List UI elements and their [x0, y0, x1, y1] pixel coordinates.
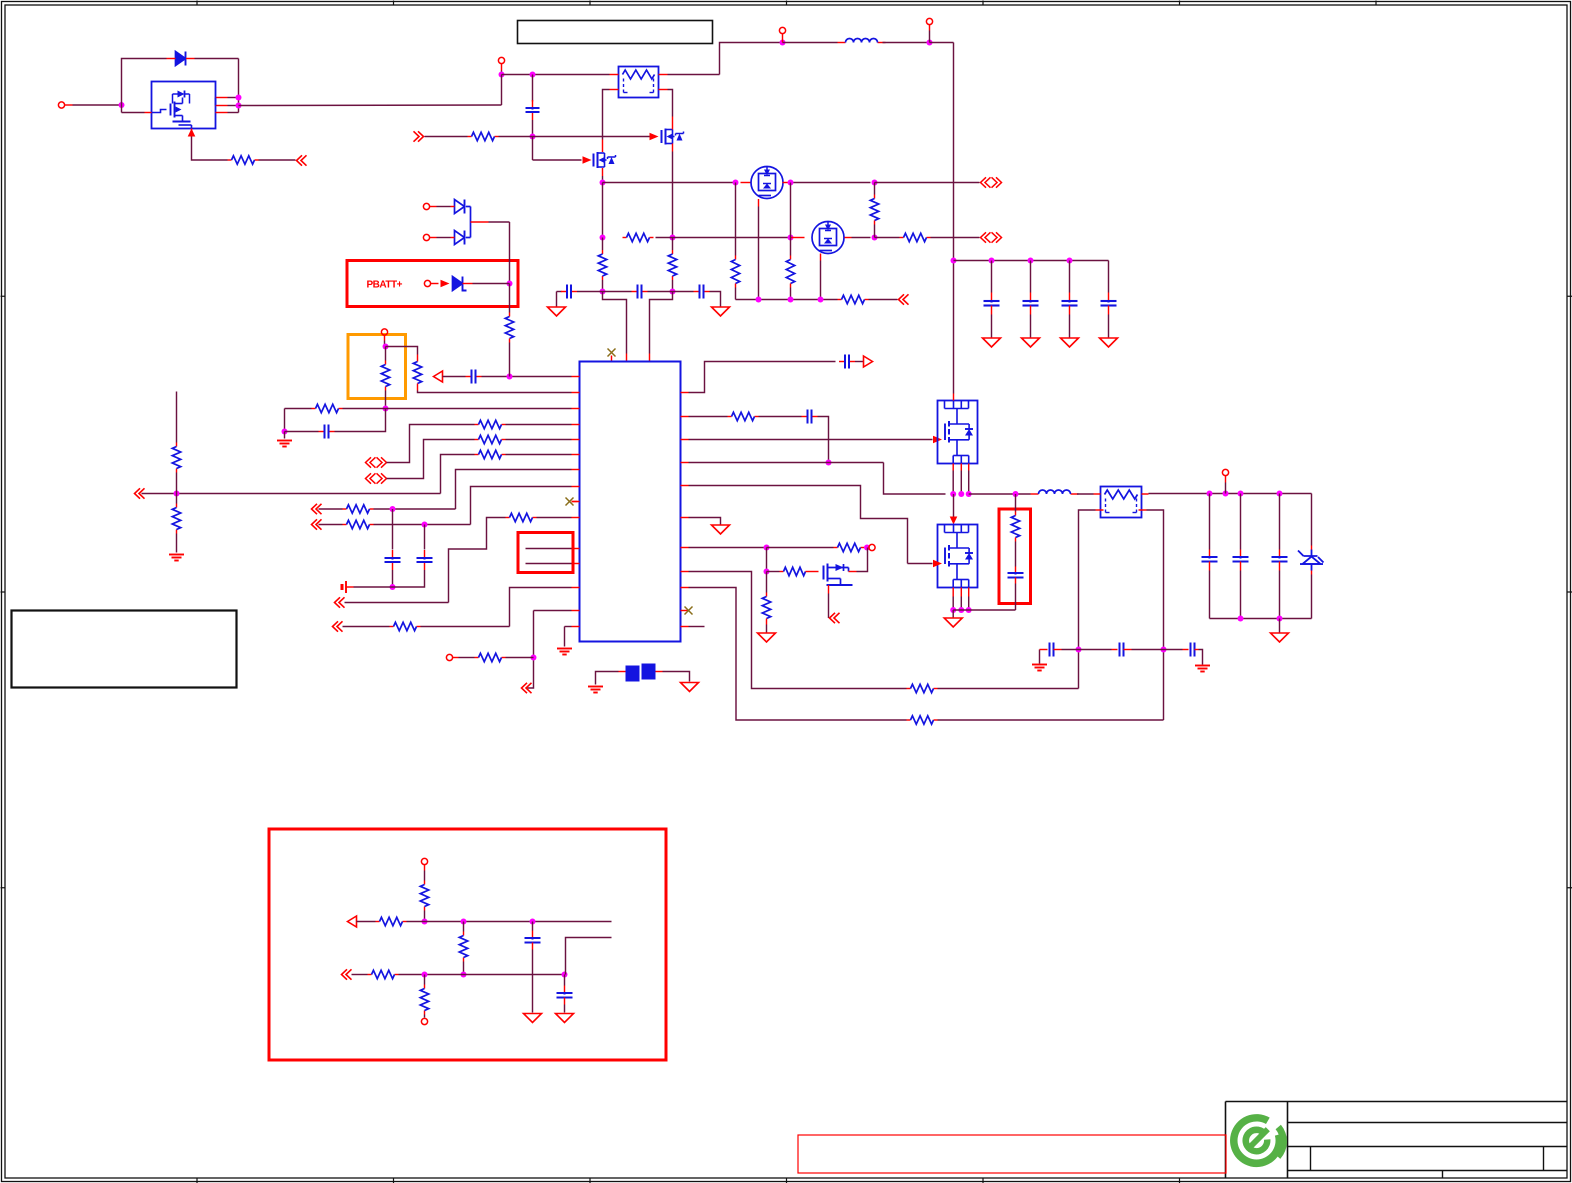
wire Q4 source down	[758, 207, 760, 300]
resistor R24	[728, 416, 732, 418]
junction bus237 R6	[872, 235, 878, 241]
resistor R17	[176, 443, 178, 447]
junction ognd b	[1277, 616, 1283, 622]
capacitor C27 div	[532, 922, 534, 931]
capacitor C14 bank	[1108, 261, 1110, 293]
resistor R15	[475, 439, 479, 441]
port pair pin439	[366, 473, 376, 483]
wire D4 to node	[473, 283, 510, 285]
wire crow d	[1164, 649, 1183, 651]
junction bus182 R6top	[872, 180, 878, 186]
no-connect pin501	[572, 501, 578, 503]
wire diode loop	[122, 59, 167, 106]
wire Q3 down to R row	[602, 183, 604, 238]
capacitor C8 net	[424, 525, 426, 550]
wire Y1 right	[663, 672, 690, 682]
wire pin547 a	[689, 547, 767, 549]
port ISENSE left	[297, 155, 307, 165]
resistor R27	[762, 597, 770, 619]
wire VIN to fuse	[502, 74, 610, 76]
wire R8 to bus299	[735, 288, 737, 300]
wire pin392 up	[689, 362, 836, 393]
wire bus237 c	[736, 237, 791, 239]
ground pin517	[712, 525, 730, 534]
port orange box	[381, 329, 387, 335]
junction C-branch	[530, 72, 536, 78]
wire bus237 f	[931, 237, 980, 239]
wire IC top feed 2	[650, 292, 673, 354]
resistor R2	[468, 136, 472, 138]
wire caps row c	[603, 291, 632, 293]
wire Q1 pin3 to loop	[228, 112, 239, 114]
port long net	[135, 488, 145, 498]
port P2 VIN	[498, 57, 504, 63]
capacitor C9	[839, 361, 845, 363]
wire R30 to corner	[938, 719, 1164, 721]
wire rail to Q6	[953, 261, 955, 394]
wire R13 to junction	[343, 408, 386, 410]
zener D4 PBATT	[453, 277, 463, 291]
resistor R3	[602, 250, 604, 254]
snubber branch	[1015, 494, 1017, 512]
black annotation box (top)	[518, 21, 713, 44]
wire R27 gnd	[766, 625, 768, 633]
diode D3 cathode join	[466, 237, 471, 239]
charger IC U1	[580, 362, 681, 642]
wire P2 down	[501, 71, 503, 75]
wire Q3 source down	[602, 176, 604, 183]
junction bank b	[1028, 258, 1034, 264]
capacitor C26	[1183, 649, 1189, 651]
wire div2 a	[352, 974, 368, 976]
resistor R18	[176, 504, 178, 508]
half-bridge FET Q6	[938, 401, 978, 464]
wire R35 down	[424, 1015, 426, 1018]
wire R31 down	[424, 911, 426, 922]
resistor R22	[390, 626, 394, 628]
capacitor C25	[1112, 649, 1118, 651]
bus299	[736, 299, 838, 301]
wire loop right leg	[238, 59, 240, 113]
junction rail A	[780, 40, 786, 46]
Q8 source down	[828, 585, 830, 594]
resistor R35	[424, 985, 426, 989]
ground power	[944, 618, 962, 627]
wire pin439	[387, 440, 475, 479]
wire R1 to port	[259, 159, 296, 161]
port div out	[348, 916, 357, 927]
wire long to pin454	[441, 455, 475, 494]
resistor R26	[834, 547, 838, 549]
ground C28	[556, 1014, 574, 1023]
wire orange node to pin392 b	[418, 391, 572, 393]
wire crow c	[1132, 649, 1164, 651]
title block row lines	[1288, 1122, 1568, 1124]
wire pin408 left	[285, 408, 312, 410]
ground crow right	[1195, 665, 1210, 667]
resistor R10	[838, 299, 842, 301]
port P3	[779, 27, 785, 33]
wire bus237 a	[656, 237, 673, 239]
mosfet Q8 small	[823, 566, 825, 580]
wire caps row e	[673, 291, 694, 293]
junction R row mid	[670, 235, 676, 241]
ground pin626	[557, 648, 572, 650]
wire RC branch down	[284, 409, 286, 432]
wire junction to Q2 gate	[533, 136, 650, 138]
wire RC gnd stub	[284, 432, 286, 439]
wire pin517 a	[345, 602, 449, 604]
junction div2	[461, 919, 467, 925]
wire rail to corner	[930, 42, 954, 44]
wire orange node down	[385, 347, 387, 361]
ground Y1 left	[588, 686, 603, 688]
wire divider top	[176, 392, 178, 443]
ground right of caps	[712, 307, 730, 316]
wire pin517 gnd	[689, 518, 721, 525]
wire div top	[424, 871, 426, 881]
capacitor C6	[319, 431, 325, 433]
wire R16 to IC	[506, 454, 572, 456]
junction boot node	[826, 460, 832, 466]
port CS out pair	[981, 232, 991, 242]
port VOUT	[1222, 469, 1228, 475]
wire pin408 right	[386, 408, 572, 410]
wire to D3	[437, 237, 451, 239]
port div top	[421, 858, 427, 864]
port VGATE pair	[981, 177, 991, 187]
ground Y1 right	[681, 683, 699, 692]
arrow into Q2 gate	[650, 133, 659, 141]
resistor R4	[672, 250, 674, 254]
wire div1 a	[357, 921, 376, 923]
sense shunt RS2	[1101, 487, 1142, 518]
title block cell dividers	[1310, 1147, 1312, 1171]
wire bt to C7	[354, 586, 393, 588]
junction vout a	[1207, 491, 1213, 497]
arrow gate1	[933, 436, 942, 444]
resistor R19	[343, 508, 347, 510]
resistor R7 between buses	[874, 183, 876, 195]
arrow into Q7 drain	[950, 517, 958, 525]
wire crow b	[1079, 649, 1112, 651]
half-bridge FET Q7	[938, 525, 978, 588]
junction div3	[530, 919, 536, 925]
current shunt RS1	[619, 67, 659, 98]
wire Q2 source down	[672, 152, 674, 238]
bus pgnd	[953, 609, 1015, 611]
resistor R32	[376, 921, 380, 923]
junction div4	[461, 972, 467, 978]
battery ref symbol	[345, 581, 347, 593]
resistor R11	[505, 317, 513, 339]
wire down cont	[672, 238, 674, 251]
wire D-node down	[509, 222, 511, 284]
junction R23	[531, 655, 537, 661]
wire RS2 kelvin left	[1079, 510, 1096, 689]
wire Q7 top	[953, 494, 955, 517]
wire VIN junction down	[501, 75, 503, 106]
diode D2	[455, 200, 465, 214]
company logo (green)	[1230, 1114, 1283, 1167]
arrow gate2	[933, 560, 942, 568]
wire R2 to junction	[499, 136, 533, 138]
RS2 bottom pins	[1096, 509, 1104, 511]
capacitor C28 div	[564, 975, 566, 986]
black annotation box (left)	[12, 611, 237, 688]
wire Q1 pin1 to loop	[228, 97, 239, 99]
resistor R5 gate-gate	[623, 237, 627, 239]
junction Q1 pin2	[236, 103, 242, 109]
red highlight box (divider circuit)	[269, 829, 666, 1060]
wire IC top feed 1	[603, 292, 627, 354]
X mark pin501	[566, 498, 574, 506]
wire pin462	[689, 462, 884, 464]
junction VIN node	[499, 72, 505, 78]
port enable in	[414, 131, 424, 141]
junction fb a	[1076, 647, 1082, 653]
bus SW b	[1077, 493, 1094, 495]
wire Q5 source down	[820, 261, 822, 300]
port D3 anode	[423, 234, 429, 240]
capacitor C10	[802, 416, 808, 418]
resistor R12	[385, 361, 387, 365]
ground output	[1271, 633, 1289, 642]
junction vout c	[1238, 491, 1244, 497]
wire pin626 down	[564, 627, 566, 647]
red annotation rect (bottom)	[798, 1135, 1226, 1173]
wire C10 corner	[818, 417, 829, 463]
wire pin547 b	[767, 547, 834, 549]
Q6 top feed	[953, 394, 955, 401]
wire gate divider down	[532, 137, 534, 161]
wire R9 to bus299	[790, 288, 792, 300]
title block frame	[1226, 1101, 1568, 1103]
bus output gnd	[1210, 618, 1312, 620]
wire Q8 drain up	[857, 548, 868, 572]
bus VOUT	[1149, 493, 1312, 495]
wire RS2 kelvin right	[1147, 510, 1164, 720]
mosfet Q1 pins	[145, 112, 152, 114]
wire Q1 pin2 to loop	[228, 105, 239, 107]
junction sw b	[958, 491, 964, 497]
wire R23 to junction	[506, 657, 534, 659]
junction divider mid	[174, 491, 180, 497]
junction caps row A	[600, 289, 606, 295]
wire port to R23	[459, 657, 475, 659]
resistor R21	[506, 517, 510, 519]
port IS return	[899, 294, 909, 304]
wire pull branch	[766, 548, 768, 572]
wire L1 to junction	[883, 42, 930, 44]
capacitor C5	[466, 376, 472, 378]
Q8 drain wire	[848, 568, 850, 572]
svg-text:PBATT+: PBATT+	[367, 280, 403, 291]
junction cap C7	[390, 506, 396, 512]
wire diodes to vertical	[489, 221, 510, 223]
wire div2 b	[399, 974, 565, 976]
wire caps row d	[648, 291, 673, 293]
ground bank 2	[1022, 338, 1040, 347]
wire R15 to IC	[506, 439, 572, 441]
wire redbox pin563	[526, 563, 572, 565]
dual mosfet Q4	[751, 167, 783, 199]
wire pin517 stairs	[449, 518, 506, 603]
port D2 anode	[423, 203, 429, 209]
junction bank a	[989, 258, 995, 264]
capacitor C7 net	[392, 509, 394, 550]
wire crow gnd R	[1199, 650, 1203, 665]
wire fuse out right	[668, 74, 720, 76]
wire cap branch down	[532, 75, 534, 102]
port div in	[342, 969, 352, 979]
wire down to divider R3	[602, 238, 604, 251]
resistor R29	[907, 688, 911, 690]
ground bank 3	[1061, 338, 1079, 347]
wire R33 down	[463, 962, 465, 975]
wire pin462 down	[884, 463, 946, 495]
wire to top rail	[720, 43, 783, 75]
junction ognd a	[1238, 616, 1244, 622]
junction pg a	[950, 607, 956, 613]
wire P1 to junction	[73, 104, 122, 106]
junction vout d	[1277, 491, 1283, 497]
port P1 input	[58, 102, 64, 108]
capacitor C13 bank	[1069, 261, 1071, 293]
wire pin439 gate1	[689, 439, 933, 441]
capacitor C24	[1040, 649, 1048, 651]
wire pin469 b	[374, 508, 456, 510]
wire pin469 a	[319, 508, 343, 510]
red highlight box (snubber)	[999, 509, 1031, 604]
wire R14 to IC	[506, 424, 572, 426]
inductor L2	[1031, 493, 1039, 495]
junction bt node	[390, 584, 396, 590]
resistor R34	[368, 974, 372, 976]
mosfet Q1 body diode	[178, 91, 185, 98]
wire R3 to caps row	[602, 280, 604, 292]
port Q8 out	[830, 613, 840, 623]
wire caps row a	[557, 291, 562, 293]
no-connect pin IC top	[611, 356, 613, 362]
port pin469 net	[312, 504, 322, 514]
wire orange node to pin392 a	[386, 347, 418, 355]
junction bus299 b	[788, 297, 794, 303]
capacitor C2	[561, 291, 567, 293]
junction pin408	[383, 406, 389, 412]
junction RC	[282, 429, 288, 435]
port pair pin424	[366, 457, 376, 467]
wire main input rail	[239, 104, 502, 107]
wire pin626 stub	[689, 626, 705, 628]
wire R11 to pin376	[509, 343, 511, 377]
wire C9 to port	[855, 361, 864, 363]
wire diode to right leg	[195, 58, 239, 60]
wire redbox pin548	[526, 548, 572, 550]
junction cap C8	[422, 522, 428, 528]
wire shunt right leg	[668, 90, 673, 117]
wire port down	[384, 341, 386, 347]
junction vout b	[1223, 491, 1229, 497]
wire pin486 up	[471, 487, 572, 525]
wire Q1 source to R1	[192, 137, 228, 161]
red highlight box PBATT	[347, 261, 518, 307]
junction pin547	[764, 545, 770, 551]
junction Q1 pin1	[236, 95, 242, 101]
wire pin424	[387, 425, 475, 463]
diode D3	[455, 231, 465, 245]
wire bus182 a	[603, 182, 736, 184]
mosfet Q2	[661, 130, 663, 143]
resistor R30	[907, 719, 911, 721]
capacitor C23 snubber	[1008, 572, 1024, 574]
diode D1 bypass	[176, 52, 186, 66]
wire PBATT node down	[509, 284, 511, 313]
junction fb b	[1161, 647, 1167, 653]
IC left pin stubs	[572, 376, 580, 378]
zener D5 output (TVS)	[1311, 494, 1313, 546]
wire R4 to caps row	[672, 280, 674, 292]
wire R17 to junction	[176, 473, 178, 494]
junction bank c	[1067, 258, 1073, 264]
wire R18 to gnd	[176, 534, 178, 553]
junction pin376	[507, 374, 513, 380]
wire to Q3 gate	[533, 159, 582, 161]
ground C27	[524, 1014, 542, 1023]
wire x735 down	[735, 183, 737, 256]
wire pin587 up	[510, 588, 572, 627]
arrow PBATT	[441, 280, 450, 288]
wire caps row to gnd L	[556, 292, 558, 307]
wire crow gnd L	[1039, 650, 1041, 664]
port PBATT+	[424, 280, 430, 286]
port ICOMP	[434, 371, 443, 382]
ground divider	[169, 554, 184, 556]
capacitor C1 series	[532, 100, 534, 108]
capacitor C8	[424, 550, 426, 558]
wire pin587 a	[343, 626, 390, 628]
resistor R14	[475, 424, 479, 426]
border zone ticks left/right	[1, 295, 6, 297]
wire C1 to gate node	[532, 120, 534, 137]
ground RC	[277, 440, 292, 442]
wire bus237 e	[875, 237, 900, 239]
resistor R23	[475, 657, 479, 659]
X mark pin610r	[685, 607, 693, 615]
diode D2 cathode join	[466, 206, 471, 208]
junction R row left	[600, 235, 606, 241]
junction input node	[119, 102, 125, 108]
wire port to R2	[425, 136, 468, 138]
port R26	[869, 544, 875, 550]
junction bus182 right	[788, 180, 794, 186]
Q7 bottom pins	[952, 588, 954, 597]
port div bottom	[421, 1018, 427, 1024]
wire div L	[566, 938, 612, 975]
resistor R1	[228, 159, 232, 161]
junction sw c	[966, 491, 972, 497]
ground crow left	[1032, 664, 1047, 666]
wire R21 to IC	[537, 517, 572, 519]
mosfet Q3	[593, 154, 595, 167]
junction pg b	[958, 607, 964, 613]
junction sw a	[950, 491, 956, 497]
capacitor C7	[392, 550, 394, 558]
wire mid divider	[463, 922, 465, 932]
junction rail-bus260	[951, 258, 957, 264]
ground bank 4	[1100, 338, 1118, 347]
bus260	[954, 260, 1109, 262]
